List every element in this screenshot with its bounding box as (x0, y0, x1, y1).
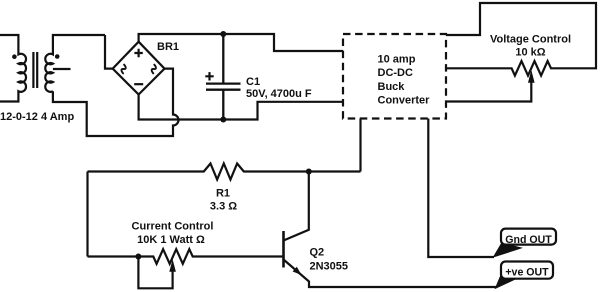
svg-text:DC-DC: DC-DC (378, 67, 413, 79)
svg-text:Converter: Converter (378, 95, 431, 107)
svg-text:C1: C1 (246, 76, 260, 88)
svg-text:R1: R1 (216, 188, 230, 200)
svg-text:10 amp: 10 amp (378, 54, 416, 66)
svg-text:Current Control: Current Control (132, 221, 214, 233)
svg-text:BR1: BR1 (157, 41, 179, 53)
svg-text:Gnd OUT: Gnd OUT (505, 234, 552, 246)
svg-text:50V, 4700u F: 50V, 4700u F (246, 88, 312, 100)
svg-text:3.3 Ω: 3.3 Ω (210, 201, 237, 213)
svg-text:Q2: Q2 (310, 247, 325, 259)
svg-text:12-0-12 4 Amp: 12-0-12 4 Amp (0, 111, 74, 123)
svg-text:10K 1 Watt Ω: 10K 1 Watt Ω (137, 234, 205, 246)
svg-text:2N3055: 2N3055 (310, 260, 349, 272)
svg-text:10 kΩ: 10 kΩ (515, 47, 545, 59)
svg-text:Buck: Buck (378, 81, 406, 93)
svg-text:+ve OUT: +ve OUT (505, 267, 549, 279)
svg-text:Voltage Control: Voltage Control (490, 33, 571, 45)
